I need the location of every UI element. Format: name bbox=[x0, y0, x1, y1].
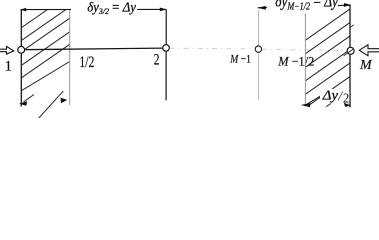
hatch stroke across node M bbox=[344, 49, 354, 56]
node M-1 extension lines bbox=[258, 10, 260, 46]
inlet open arrow bbox=[0, 46, 14, 54]
left boundary band hatching bbox=[0, 0, 120, 93]
dimension line dy_M-1/2 bbox=[258, 5, 351, 8]
left band right edge (interface) bbox=[69, 10, 71, 106]
svg-text:M −1/2: M −1/2 bbox=[277, 55, 314, 69]
svg-text:Δy: Δy bbox=[322, 88, 339, 103]
svg-text:δy3/2 = Δy: δy3/2 = Δy bbox=[87, 1, 137, 17]
svg-text:M −1: M −1 bbox=[229, 53, 251, 65]
svg-text:2: 2 bbox=[154, 50, 160, 69]
svg-text:1/2: 1/2 bbox=[79, 54, 94, 71]
left band bottom: right arrowhead bbox=[61, 98, 68, 104]
left band left edge (boundary wall at node 1) bbox=[20, 10, 22, 107]
svg-text:1: 1 bbox=[5, 59, 12, 75]
extension line above node 2 bbox=[165, 10, 167, 46]
right boundary band hatching bbox=[280, 0, 379, 139]
chain line node2 .. node M-1 bbox=[170, 47, 256, 50]
hatch overshoot tick at wall M bbox=[350, 25, 354, 28]
arrowhead right of dy_3/2 bbox=[160, 8, 167, 12]
dimension line dy_3/2 bbox=[21, 8, 167, 10]
right band left edge (interface) bbox=[304, 10, 306, 107]
arrowhead right of dy_M-1/2 bbox=[344, 3, 351, 7]
node M-1 bbox=[255, 46, 261, 52]
outlet open arrow bbox=[359, 45, 379, 56]
node M bbox=[347, 47, 354, 54]
node 1 bbox=[18, 46, 25, 53]
right band bottom: right arrowhead bbox=[344, 103, 351, 107]
left band bottom: oblique leader line bbox=[39, 91, 64, 118]
arrowhead left of dy_M-1/2 bbox=[258, 6, 266, 10]
label Dy/2 bbox=[320, 89, 349, 104]
right band bottom: leader to left arrowhead bbox=[307, 88, 334, 104]
chain line node M-1 .. node M bbox=[262, 49, 347, 50]
extension line below node 2 bbox=[165, 51, 167, 100]
node 2 bbox=[163, 45, 170, 52]
right band bottom: right leader bbox=[345, 100, 348, 103]
right band right edge (boundary wall at node M) bbox=[349, 5, 351, 107]
svg-text:M: M bbox=[359, 58, 373, 73]
main grid line node1-node2 bbox=[22, 48, 164, 50]
left band bottom: leader to left arrowhead bbox=[24, 95, 34, 102]
arrowhead left of dy_3/2 bbox=[20, 8, 26, 12]
